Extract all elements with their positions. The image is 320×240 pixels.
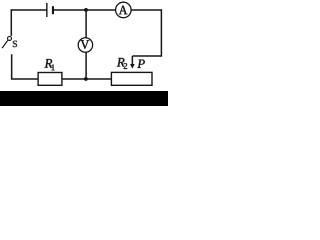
resistor R1	[38, 73, 62, 86]
wire voltmeter top lead	[85, 10, 87, 38]
voltmeter V	[78, 38, 93, 53]
bottom black bar	[0, 91, 168, 106]
rheostat R2 wiper arrow P	[130, 56, 135, 69]
node top junction	[84, 8, 88, 12]
label S	[13, 41, 17, 47]
switch S	[2, 36, 11, 48]
wire top-right segment	[131, 9, 161, 11]
battery	[47, 3, 54, 17]
label P	[137, 60, 144, 68]
wire voltmeter bottom lead	[85, 52, 87, 79]
resistor R2	[111, 72, 152, 85]
wire bottom-left segment	[12, 54, 38, 79]
wire right vertical with elbow to wiper	[132, 9, 161, 56]
wire top-left segment	[11, 9, 47, 11]
label R2	[117, 58, 127, 69]
wire bottom-right segment	[62, 78, 112, 80]
node bottom junction	[84, 77, 88, 81]
wire top-middle segment	[54, 9, 116, 11]
ammeter A	[116, 2, 132, 18]
wire left vertical	[10, 9, 12, 36]
label R1	[45, 59, 55, 70]
